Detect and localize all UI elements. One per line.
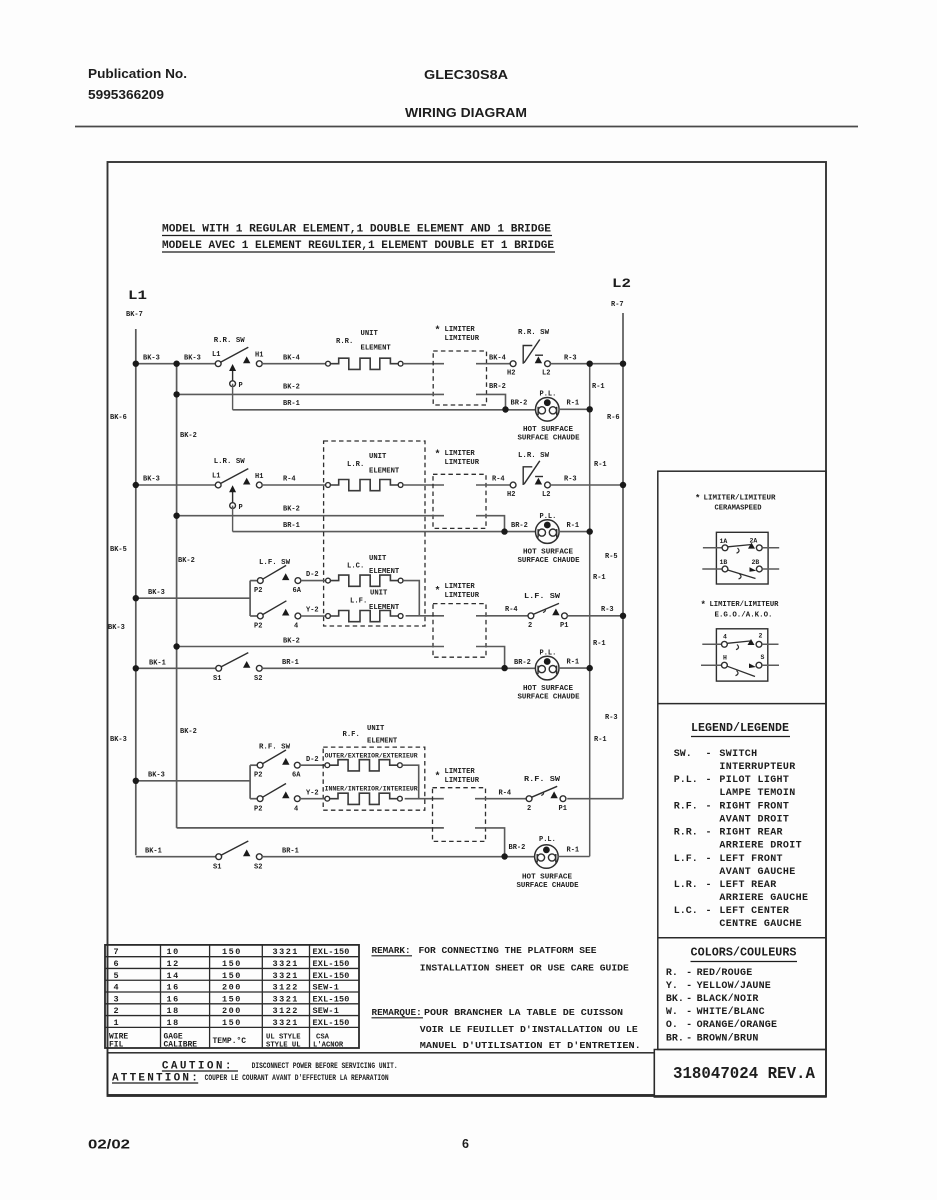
- svg-text:-: -: [706, 749, 712, 760]
- svg-text:L.C.: L.C.: [674, 906, 698, 917]
- svg-text:WHITE/BLANC: WHITE/BLANC: [697, 1006, 765, 1018]
- switch S1/S2 row4: [216, 854, 222, 860]
- wire row3 pole A to L.C. element: [301, 580, 326, 582]
- svg-text:EXL-150: EXL-150: [313, 1018, 350, 1028]
- svg-text:REMARQUE:: REMARQUE:: [372, 1007, 422, 1018]
- wire row3 BK-2 from riser to limiter: [177, 646, 444, 648]
- svg-text:2B: 2B: [752, 559, 760, 566]
- svg-text:BR-1: BR-1: [282, 659, 299, 667]
- svg-text:R-4: R-4: [283, 476, 296, 484]
- svg-text:2: 2: [759, 633, 763, 640]
- svg-text:H: H: [723, 655, 727, 662]
- svg-text:SURFACE CHAUDE: SURFACE CHAUDE: [518, 694, 580, 702]
- ceramaspeed terminal 1B: [702, 568, 722, 570]
- svg-text:*: *: [435, 325, 441, 337]
- svg-text:FIL: FIL: [109, 1040, 124, 1049]
- wire row1 element to limiter: [403, 363, 444, 365]
- svg-text:R-1: R-1: [593, 574, 606, 582]
- svg-text:R.R.: R.R.: [674, 828, 698, 839]
- svg-text:SURFACE CHAUDE: SURFACE CHAUDE: [517, 882, 579, 890]
- junction row1 inner riser: [173, 361, 179, 367]
- svg-text:H1: H1: [255, 473, 263, 481]
- wire row1 BK-3 from L1 bus: [136, 363, 216, 365]
- svg-text:R-4: R-4: [505, 606, 518, 614]
- svg-text:WIRING DIAGRAM: WIRING DIAGRAM: [405, 105, 527, 120]
- junction row3 BK-1 on L1 bus: [133, 665, 139, 671]
- right panel box: [658, 471, 826, 1049]
- wire row3 BR-1 to pilot: [262, 667, 536, 669]
- svg-text:BR-1: BR-1: [283, 400, 300, 408]
- wire row1 limiter out BK-4 to H2: [476, 363, 510, 365]
- svg-text:-: -: [706, 906, 712, 917]
- svg-text:R-1: R-1: [567, 659, 580, 667]
- svg-text:BK-2: BK-2: [178, 557, 195, 565]
- svg-text:P.L.: P.L.: [539, 836, 556, 844]
- svg-text:-: -: [686, 994, 692, 1005]
- ceramaspeed terminal 2B: [756, 566, 762, 572]
- ego terminal H: [701, 664, 721, 666]
- wire R-1 riser joining pilot lights: [589, 362, 591, 857]
- svg-text:-: -: [686, 968, 692, 979]
- svg-text:R-1: R-1: [567, 400, 580, 408]
- svg-text:3321: 3321: [273, 947, 299, 957]
- svg-text:200: 200: [222, 1006, 242, 1016]
- wire row2 limiter lower out BR-2 step: [476, 516, 505, 529]
- wire row4 limiter lower out BR-2 step: [475, 828, 505, 855]
- junction row4 BR-2: [501, 853, 507, 859]
- svg-text:Y-2: Y-2: [306, 790, 319, 798]
- svg-text:-: -: [686, 1020, 692, 1031]
- svg-text:7: 7: [114, 947, 121, 957]
- svg-text:Publication No.: Publication No.: [88, 66, 187, 81]
- svg-text:1B: 1B: [720, 559, 728, 566]
- svg-text:LIMITEUR: LIMITEUR: [445, 459, 480, 467]
- wire L.C. out joining L.F. out: [403, 581, 419, 616]
- switch S1/S2 row3: [216, 665, 222, 671]
- svg-text:COUPER LE COURANT AVANT D'EFFE: COUPER LE COURANT AVANT D'EFFECTUER LA R…: [205, 1074, 389, 1083]
- ego terminal 2: [756, 641, 762, 647]
- wire row1 limiter lower out BR-2 step: [476, 394, 506, 407]
- svg-text:L1: L1: [128, 289, 147, 303]
- svg-text:UNIT: UNIT: [369, 555, 387, 563]
- svg-text:W.: W.: [666, 1007, 678, 1018]
- junction row1 R-3/R-1: [587, 361, 593, 367]
- wire L2 bus bend to row4 P1: [567, 798, 623, 800]
- svg-text:LEFT REAR: LEFT REAR: [719, 880, 776, 891]
- svg-text:BK-3: BK-3: [143, 476, 160, 484]
- svg-text:L.R. SW: L.R. SW: [518, 452, 549, 460]
- limiter symbol ego box: [716, 629, 767, 681]
- svg-text:18: 18: [167, 1006, 180, 1016]
- wire row3 limiter out R-4 to switch: [476, 615, 528, 617]
- switch L.F. SW pole A (L.C.): [257, 578, 263, 584]
- svg-text:BR.: BR.: [666, 1033, 684, 1044]
- switch R.F. SW double pole riser: [249, 765, 251, 799]
- svg-text:R-3: R-3: [601, 606, 614, 614]
- junction row3 on L2 bus: [620, 613, 626, 619]
- junction row1 on L2 bus: [620, 361, 626, 367]
- svg-text:6A: 6A: [293, 587, 302, 595]
- panel divider colors top: [658, 937, 826, 939]
- switch R.F. SW pole B (inner): [257, 796, 263, 802]
- svg-text:S1: S1: [213, 864, 221, 872]
- svg-text:BK-2: BK-2: [283, 506, 300, 514]
- svg-text:3321: 3321: [273, 959, 299, 969]
- svg-text:R-6: R-6: [607, 414, 620, 422]
- svg-text:14: 14: [167, 971, 180, 981]
- ego terminal 4: [702, 643, 721, 645]
- svg-text:LIMITER: LIMITER: [445, 450, 476, 458]
- junction row2 BK-2 riser: [173, 513, 179, 519]
- wire row4 pilot R-1 out: [558, 856, 590, 858]
- svg-text:2: 2: [527, 805, 531, 813]
- svg-text:LIMITEUR: LIMITEUR: [445, 592, 480, 600]
- junction row1 BK-2 riser: [173, 391, 179, 397]
- svg-text:ORANGE/ORANGE: ORANGE/ORANGE: [697, 1019, 778, 1031]
- svg-text:BK-7: BK-7: [126, 311, 143, 319]
- junction row4 on L1 bus: [133, 778, 139, 784]
- dashed box around double element and bridge: [324, 441, 425, 626]
- svg-text:S2: S2: [254, 675, 262, 683]
- svg-text:BR-1: BR-1: [282, 848, 299, 856]
- svg-text:4: 4: [294, 806, 298, 814]
- svg-text:BK-5: BK-5: [110, 546, 127, 554]
- svg-text:L.C.: L.C.: [347, 563, 364, 571]
- wire inner BK-2 riser: [176, 364, 178, 828]
- svg-text:BR-2: BR-2: [509, 844, 526, 852]
- svg-text:HOT SURFACE: HOT SURFACE: [523, 426, 573, 434]
- svg-text:UNIT: UNIT: [370, 590, 388, 598]
- svg-text:R-1: R-1: [592, 383, 605, 391]
- wire row2 BK-2 from riser to limiter: [177, 515, 444, 517]
- svg-text:P2: P2: [254, 772, 262, 780]
- svg-text:UNIT: UNIT: [367, 725, 385, 733]
- svg-text:3122: 3122: [273, 983, 299, 993]
- svg-text:SW.: SW.: [674, 749, 692, 760]
- svg-text:LIMITER: LIMITER: [445, 768, 476, 776]
- svg-text:MODEL WITH 1 REGULAR ELEMENT,1: MODEL WITH 1 REGULAR ELEMENT,1 DOUBLE EL…: [162, 224, 551, 236]
- svg-text:HOT SURFACE: HOT SURFACE: [523, 549, 573, 557]
- wire row2 R-3 to L2 bus: [550, 484, 623, 486]
- svg-text:R.: R.: [666, 968, 678, 979]
- svg-text:Y-2: Y-2: [306, 607, 319, 615]
- wire row4 inner element to limiter: [405, 798, 444, 800]
- svg-text:L2: L2: [542, 370, 550, 378]
- svg-text:-: -: [706, 828, 712, 839]
- svg-text:ELEMENT: ELEMENT: [361, 344, 392, 352]
- svg-text:L.F.: L.F.: [350, 598, 367, 606]
- wire row2 element to limiter: [403, 484, 444, 486]
- wire L1 bus: [135, 329, 137, 855]
- svg-text:SWITCH: SWITCH: [719, 749, 757, 760]
- svg-text:4: 4: [294, 623, 298, 631]
- wire row2 H1 to element R-4: [262, 484, 326, 486]
- svg-text:R-1: R-1: [567, 847, 580, 855]
- svg-text:L.F. SW: L.F. SW: [524, 593, 561, 601]
- svg-text:AVANT GAUCHE: AVANT GAUCHE: [719, 867, 795, 878]
- wire row2 limiter out R-4 to H2: [476, 484, 510, 486]
- svg-text:-: -: [686, 981, 692, 992]
- svg-text:12: 12: [167, 959, 180, 969]
- svg-text:Y.: Y.: [666, 981, 678, 992]
- svg-text:S: S: [761, 654, 765, 661]
- svg-text:ELEMENT: ELEMENT: [369, 468, 400, 476]
- panel divider legend top: [658, 703, 826, 705]
- svg-text:RED/ROUGE: RED/ROUGE: [697, 967, 753, 979]
- svg-text:UNIT: UNIT: [361, 330, 379, 338]
- svg-text:*: *: [435, 449, 441, 461]
- svg-text:1: 1: [114, 1018, 121, 1028]
- svg-text:GLEC30S8A: GLEC30S8A: [424, 67, 509, 82]
- svg-text:R.R.: R.R.: [336, 338, 353, 346]
- svg-text:BK-3: BK-3: [110, 736, 127, 744]
- ceramaspeed terminal 2A: [756, 545, 762, 551]
- svg-text:EXL-150: EXL-150: [313, 947, 350, 957]
- svg-text:-: -: [706, 854, 712, 865]
- svg-text:4: 4: [723, 634, 727, 641]
- ego terminal S: [756, 662, 762, 668]
- svg-text:COLORS/COULEURS: COLORS/COULEURS: [691, 947, 797, 960]
- svg-text:3: 3: [114, 994, 121, 1004]
- svg-text:EXL-150: EXL-150: [313, 959, 350, 969]
- svg-text:1A: 1A: [720, 538, 728, 545]
- svg-text:S1: S1: [213, 675, 221, 683]
- svg-text:TEMP.°C: TEMP.°C: [213, 1037, 247, 1046]
- limiter row2 dashed box: [433, 474, 486, 528]
- svg-text:BROWN/BRUN: BROWN/BRUN: [697, 1032, 759, 1044]
- svg-text:BK-3: BK-3: [148, 589, 165, 597]
- svg-text:BK-4: BK-4: [489, 355, 506, 363]
- svg-text:18: 18: [167, 1018, 180, 1028]
- svg-text:UNIT: UNIT: [369, 453, 387, 461]
- svg-text:6: 6: [462, 1137, 469, 1151]
- svg-text:L'ACNOR: L'ACNOR: [313, 1041, 344, 1049]
- wire row4 pole B to inner element: [300, 798, 325, 800]
- svg-text:H2: H2: [507, 370, 515, 378]
- svg-text:*: *: [695, 494, 700, 504]
- svg-text:SEW-1: SEW-1: [313, 983, 340, 993]
- svg-text:BK-1: BK-1: [149, 660, 166, 668]
- limiter row3 dashed box: [433, 604, 486, 658]
- svg-text:LEFT CENTER: LEFT CENTER: [719, 906, 789, 917]
- svg-text:BK-2: BK-2: [180, 432, 197, 440]
- svg-text:ARRIERE DROIT: ARRIERE DROIT: [719, 841, 802, 852]
- svg-text:-: -: [706, 801, 712, 812]
- svg-text:L2: L2: [542, 491, 550, 499]
- svg-text:P1: P1: [560, 622, 568, 630]
- svg-text:BK-3: BK-3: [108, 624, 125, 632]
- diagram border frame: [108, 162, 827, 1096]
- svg-text:H2: H2: [507, 491, 515, 499]
- wire row3 BK-3 from L1 bus: [136, 597, 250, 599]
- svg-text:4: 4: [114, 983, 121, 993]
- svg-text:SURFACE CHAUDE: SURFACE CHAUDE: [518, 435, 580, 443]
- element box R.F. dashed: [323, 747, 425, 810]
- pilot tap P row1: [230, 381, 236, 387]
- junction row2 BR-2: [501, 528, 507, 534]
- svg-text:L.R. SW: L.R. SW: [214, 458, 245, 466]
- wire outer element out joining inner: [402, 765, 418, 799]
- svg-text:EXL-150: EXL-150: [313, 994, 350, 1004]
- part number box: [654, 1050, 826, 1098]
- svg-text:150: 150: [222, 959, 242, 969]
- svg-text:L.R.: L.R.: [347, 461, 364, 469]
- svg-text:HOT SURFACE: HOT SURFACE: [523, 685, 573, 693]
- svg-text:2: 2: [114, 1006, 121, 1016]
- svg-text:LIMITER: LIMITER: [445, 583, 476, 591]
- junction row3 R-1: [587, 665, 593, 671]
- wire row1 BR-1 from P to pilot: [233, 409, 536, 411]
- svg-text:OUTER/EXTERIOR/EXTERIEUR: OUTER/EXTERIOR/EXTERIEUR: [325, 753, 418, 760]
- svg-text:SEW-1: SEW-1: [313, 1006, 340, 1016]
- svg-text:R.R. SW: R.R. SW: [518, 329, 549, 337]
- wire L1 bus bend to row4 BK-1: [136, 856, 216, 858]
- wire row3 L.F. element to limiter: [406, 615, 444, 617]
- svg-text:5995366209: 5995366209: [88, 87, 164, 102]
- svg-text:S2: S2: [254, 864, 262, 872]
- wire row3 pole B to L.F. element: [301, 615, 326, 617]
- svg-text:BR-2: BR-2: [514, 659, 531, 667]
- wire inner riser bend to row4 BR-2: [177, 827, 444, 829]
- ego contact top: [727, 641, 750, 643]
- svg-text:150: 150: [222, 947, 242, 957]
- junction row1 BR-2: [502, 406, 508, 412]
- svg-text:02/02: 02/02: [88, 1138, 130, 1152]
- wire row1 R-3 to L2 bus: [550, 363, 623, 365]
- limiter row1 dashed box: [433, 351, 486, 405]
- svg-text:-: -: [706, 880, 712, 891]
- svg-text:3321: 3321: [273, 1018, 299, 1028]
- svg-text:3321: 3321: [273, 994, 299, 1004]
- svg-text:REMARK:: REMARK:: [372, 945, 411, 956]
- junction row2 on L2 bus: [620, 482, 626, 488]
- wire row2 pilot R-1 out: [559, 531, 590, 533]
- svg-text:BLACK/NOIR: BLACK/NOIR: [697, 993, 759, 1005]
- svg-text:FOR CONNECTING THE PLATFORM SE: FOR CONNECTING THE PLATFORM SEE: [419, 945, 597, 956]
- svg-text:R-3: R-3: [605, 714, 618, 722]
- junction row1 on L1 bus: [133, 361, 139, 367]
- svg-text:-: -: [706, 775, 712, 786]
- svg-text:STYLE UL: STYLE UL: [266, 1041, 301, 1049]
- svg-text:H1: H1: [255, 352, 263, 360]
- ceramaspeed contact A: [728, 545, 751, 547]
- limiter row4 dashed box: [433, 788, 486, 842]
- svg-text:R.F.: R.F.: [343, 731, 360, 739]
- svg-text:3321: 3321: [273, 971, 299, 981]
- svg-text:6: 6: [114, 959, 121, 969]
- wire row3 P1 R-3 to L2 bus: [567, 615, 623, 617]
- svg-text:E.G.O./A.K.O.: E.G.O./A.K.O.: [715, 612, 773, 620]
- svg-text:CERAMASPEED: CERAMASPEED: [715, 505, 762, 513]
- wire gauge table: [105, 945, 359, 1048]
- svg-text:INNER/INTERIOR/INTERIEUR: INNER/INTERIOR/INTERIEUR: [325, 786, 418, 793]
- junction row3 on L1 bus: [133, 595, 139, 601]
- wire row4 limiter out R-4 to switch: [475, 798, 526, 800]
- svg-text:VOIR LE FEUILLET D'INSTALLATIO: VOIR LE FEUILLET D'INSTALLATION OU LE: [420, 1024, 638, 1035]
- junction row2 on L1 bus: [133, 482, 139, 488]
- svg-text:R-7: R-7: [611, 301, 624, 309]
- svg-text:BR-1: BR-1: [283, 522, 300, 530]
- switch R.F. SW pole A (outer): [257, 762, 263, 768]
- svg-text:10: 10: [167, 947, 180, 957]
- svg-text:318047024 REV.A: 318047024 REV.A: [673, 1064, 815, 1083]
- svg-text:DISCONNECT POWER BEFORE SERVIC: DISCONNECT POWER BEFORE SERVICING UNIT.: [252, 1062, 398, 1071]
- svg-text:6A: 6A: [292, 772, 301, 780]
- svg-text:2: 2: [528, 622, 532, 630]
- svg-text:R.F. SW: R.F. SW: [524, 776, 561, 784]
- svg-text:R-1: R-1: [594, 736, 607, 744]
- svg-text:SURFACE CHAUDE: SURFACE CHAUDE: [518, 557, 580, 565]
- svg-text:CSA: CSA: [316, 1034, 330, 1042]
- svg-text:INTERRUPTEUR: INTERRUPTEUR: [719, 762, 795, 773]
- svg-text:3122: 3122: [273, 1006, 299, 1016]
- svg-text:*: *: [435, 586, 441, 598]
- caution box: [108, 1053, 655, 1095]
- svg-text:R-1: R-1: [594, 461, 607, 469]
- junction row3 BK-2 riser: [173, 643, 179, 649]
- svg-text:EXL-150: EXL-150: [313, 971, 350, 981]
- wire L2 bus: [622, 313, 624, 799]
- limiter symbol ceramaspeed box: [716, 532, 768, 584]
- svg-text:-: -: [686, 1007, 692, 1018]
- wire row4 BK-2/BR-2 lower from riser bend: [443, 827, 445, 829]
- svg-text:BR-2: BR-2: [511, 400, 528, 408]
- svg-text:P2: P2: [254, 623, 262, 631]
- svg-text:CALIBRE: CALIBRE: [164, 1040, 198, 1049]
- svg-text:LIMITEUR: LIMITEUR: [445, 335, 480, 343]
- wire row1 BK-2 from riser to limiter: [177, 393, 444, 395]
- switch L.F. SW double pole riser: [249, 581, 251, 616]
- pilot tap P row2: [230, 503, 236, 509]
- svg-text:R-4: R-4: [492, 476, 505, 484]
- svg-text:2A: 2A: [750, 538, 758, 545]
- svg-text:D-2: D-2: [306, 571, 319, 579]
- svg-text:R-1: R-1: [593, 640, 606, 648]
- wire row1 pilot R-1 out: [559, 408, 590, 410]
- svg-text:YELLOW/JAUNE: YELLOW/JAUNE: [697, 980, 771, 992]
- svg-text:200: 200: [222, 983, 242, 993]
- svg-text:150: 150: [222, 1018, 242, 1028]
- wire row3 pilot R-1 out: [559, 667, 590, 669]
- svg-text:BR-2: BR-2: [489, 383, 506, 391]
- svg-text:BK-4: BK-4: [283, 355, 300, 363]
- svg-text:*: *: [435, 771, 441, 783]
- svg-text:L1: L1: [212, 351, 220, 359]
- svg-text:L.R.: L.R.: [674, 880, 698, 891]
- svg-text:AVANT DROIT: AVANT DROIT: [719, 814, 789, 825]
- svg-text:HOT SURFACE: HOT SURFACE: [522, 874, 572, 882]
- svg-text:LIMITER: LIMITER: [445, 326, 476, 334]
- svg-text:RIGHT REAR: RIGHT REAR: [719, 828, 783, 839]
- wire row1 H1 to element BK-4: [262, 363, 326, 365]
- svg-text:ELEMENT: ELEMENT: [367, 738, 398, 746]
- svg-text:PILOT LIGHT: PILOT LIGHT: [719, 775, 789, 786]
- svg-text:UL STYLE: UL STYLE: [266, 1034, 301, 1042]
- svg-text:LEGEND/LEGENDE: LEGEND/LEGENDE: [691, 722, 789, 735]
- junction row3 BR-2: [501, 665, 507, 671]
- svg-text:P: P: [239, 382, 243, 390]
- svg-text:BK.: BK.: [666, 994, 684, 1005]
- svg-text:POUR BRANCHER LA TABLE DE CUIS: POUR BRANCHER LA TABLE DE CUISSON: [424, 1007, 623, 1018]
- svg-text:150: 150: [222, 994, 242, 1004]
- svg-text:R-4: R-4: [499, 790, 512, 798]
- svg-text:LIMITEUR: LIMITEUR: [445, 777, 480, 785]
- svg-text:LIMITER/LIMITEUR: LIMITER/LIMITEUR: [704, 495, 777, 503]
- svg-text:R-1: R-1: [567, 522, 580, 530]
- svg-text:O.: O.: [666, 1020, 678, 1031]
- svg-text:BK-6: BK-6: [110, 414, 127, 422]
- svg-text:-: -: [686, 1033, 692, 1044]
